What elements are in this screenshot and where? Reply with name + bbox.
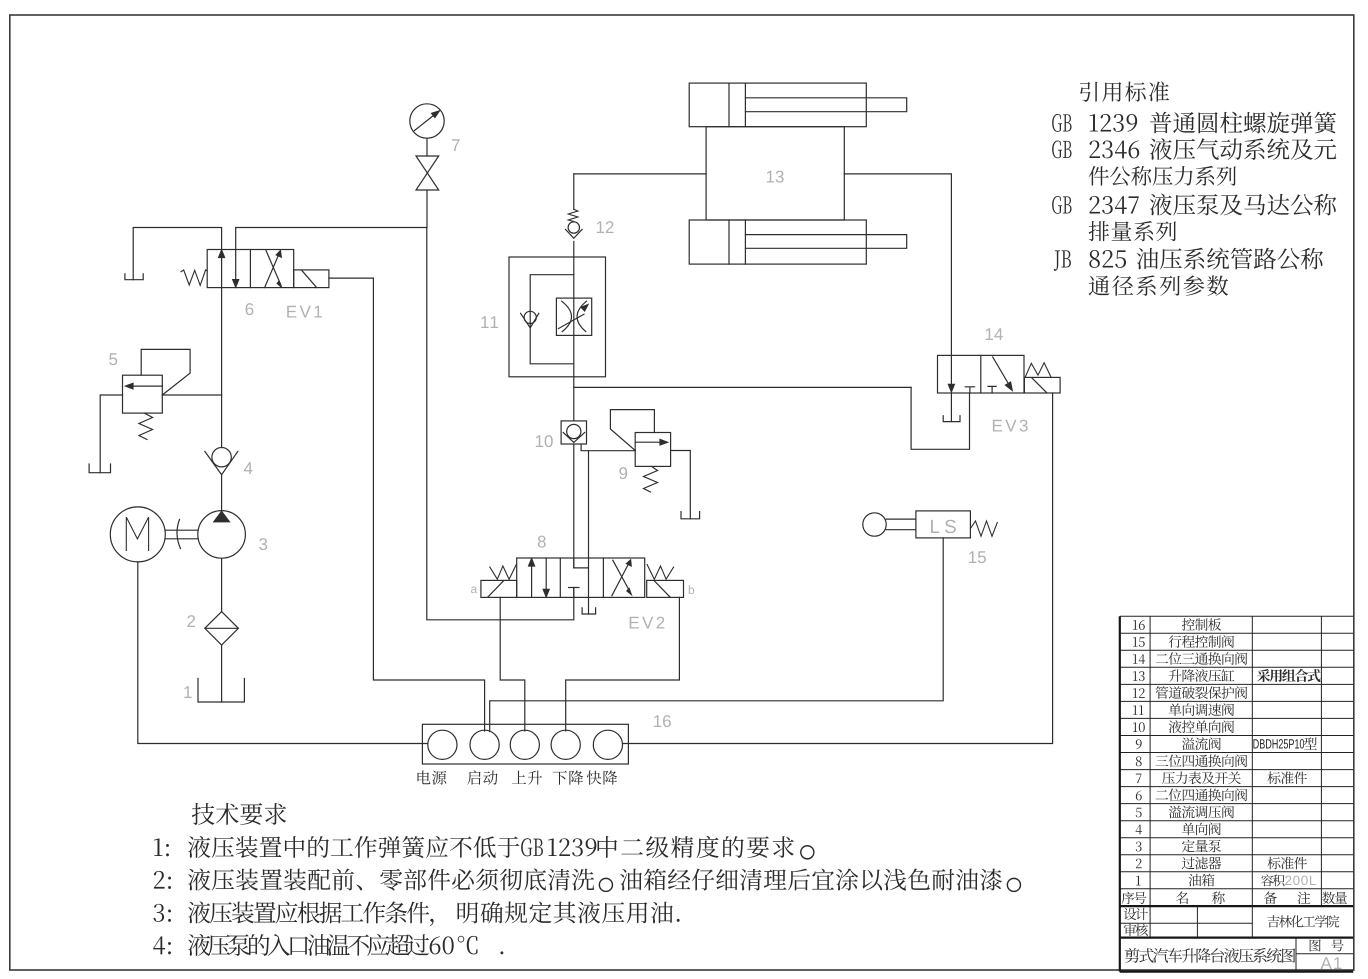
wire cylinder left port: [574, 173, 706, 175]
title block: [1124, 908, 1148, 920]
label 2: [187, 615, 195, 627]
label 10: [536, 435, 553, 447]
EV1 top right line to gauge line: [236, 228, 427, 250]
cylinder 13 center block: [706, 127, 844, 220]
gauge shutoff valve: [426, 138, 428, 156]
wire limit valve 15 to board (启动): [490, 538, 944, 732]
board label 快降: [587, 770, 617, 784]
relief valve 5 arrow: [130, 385, 162, 387]
label 8: [538, 536, 546, 548]
EV2 left spring: [490, 565, 517, 580]
relief valve 9 spring: [644, 466, 658, 492]
EV2 drain bracket below middle: [588, 597, 590, 614]
pressure line to EV2: [427, 228, 574, 620]
limit valve 15 plunger: [886, 519, 916, 530]
label EV3: [993, 420, 1028, 432]
shaft rotation arc: [177, 520, 181, 549]
board label 启动: [467, 770, 497, 784]
label 16: [654, 715, 671, 727]
pilot check valve 10: [561, 421, 586, 444]
main line through valve 11: [573, 242, 575, 421]
table row 10: [1133, 722, 1145, 732]
wire main line to EV3: [574, 386, 911, 388]
table row 14: [1133, 654, 1145, 664]
valve 11 throttle: [556, 298, 591, 335]
wire cylinder right port to EV3: [844, 174, 951, 356]
limit valve 15 spring: [970, 521, 997, 536]
table row 7: [1136, 774, 1142, 783]
control board 16: [422, 724, 628, 764]
EV1 top left drain line: [133, 228, 221, 280]
EV1 spring: [181, 270, 207, 286]
board button 下降: [551, 730, 580, 759]
pressure line gauge down: [426, 190, 428, 228]
wire branch down through EV2 to drain: [588, 451, 590, 598]
wire motor to control board: [138, 562, 428, 744]
board label 上升: [512, 771, 542, 785]
label 15: [969, 551, 986, 563]
table row 13: [1133, 671, 1145, 681]
label EV1: [287, 306, 322, 318]
drawing title: [1125, 948, 1295, 963]
wire EV1 to check valve: [221, 288, 223, 448]
tank 1: [198, 679, 244, 703]
label LS: [931, 520, 956, 533]
board button 电源: [428, 730, 457, 759]
wire 10 branch to valve 9: [581, 444, 635, 451]
board label 电源: [417, 770, 446, 784]
pump 3: [198, 511, 246, 559]
relief valve 9 body: [635, 433, 670, 467]
rupture protection valve 12 spring: [568, 209, 578, 221]
table row 12: [1133, 688, 1145, 698]
EV2 left position arrows: [531, 562, 533, 598]
label b: [689, 585, 694, 594]
pressure gauge 7: [410, 104, 444, 138]
label 9: [619, 467, 627, 479]
speed control valve 11 enclosure: [509, 257, 606, 377]
parts table grid: [1120, 616, 1353, 971]
label 200L: [1285, 876, 1316, 886]
wire EV1 solenoid down to control board: [329, 278, 485, 731]
relief valve 9 arrow: [635, 441, 663, 443]
label 11: [481, 316, 498, 328]
relief valve 5 body: [123, 375, 163, 413]
table row 6: [1136, 790, 1142, 800]
board label 下降: [553, 770, 583, 784]
EV3 right position blocked port: [988, 386, 996, 393]
EV3 right position diagonal arrow: [993, 357, 1010, 386]
motor M: [110, 507, 165, 562]
limit valve 15 roller: [863, 513, 886, 536]
label 13: [767, 171, 784, 183]
cylinder 13 bottom rod: [745, 235, 906, 249]
valve 8 EV2 body: [517, 558, 645, 597]
EV3 drain tank symbol: [943, 416, 960, 422]
standards heading: [1080, 81, 1169, 101]
tech requirements heading: [192, 803, 286, 825]
table row 5: [1136, 808, 1142, 818]
label 12: [597, 221, 614, 233]
board button 上升: [510, 730, 539, 759]
cylinder 13 top barrel: [689, 83, 866, 127]
label 7: [452, 139, 460, 151]
EV2 middle position porting: [574, 558, 589, 568]
check valve 4: [212, 448, 231, 467]
EV2 center port stem: [573, 588, 575, 598]
valve 11 bypass check valve: [524, 311, 536, 323]
label a: [471, 587, 477, 594]
motor shaft: [165, 530, 198, 539]
table row 15: [1133, 637, 1145, 647]
label 14: [986, 328, 1003, 340]
wire filter to tank: [221, 645, 223, 702]
wire EV2 left port to board (上升): [500, 597, 525, 731]
table thick borders: [1120, 616, 1353, 971]
label 3: [259, 538, 267, 550]
tank symbol below valve 9: [681, 512, 700, 519]
relief valve 9 drain: [671, 451, 691, 519]
EV3 drain below left square: [950, 393, 952, 422]
limit valve 15 body: [916, 511, 971, 538]
EV2 right spring: [647, 565, 674, 580]
filter 2: [205, 612, 239, 645]
wire cylinder line down to valve 12: [573, 174, 575, 209]
board button 快降: [593, 730, 622, 759]
board button 启动: [470, 730, 499, 759]
label 6: [246, 303, 254, 315]
table row 8: [1136, 756, 1142, 766]
valve 6 EV1 body: [207, 250, 294, 288]
EV3 left position blocked port: [965, 387, 974, 393]
label EV2: [630, 617, 665, 629]
table row 2: [1136, 859, 1142, 869]
relief valve 9 pilot line: [610, 410, 654, 451]
wire check valve to pump: [221, 475, 223, 511]
EV1 crossed position: [265, 251, 281, 288]
table remark DBDH25P10: [1253, 739, 1304, 749]
valve 11 bypass loop: [530, 275, 574, 364]
relief valve 5 pilot line: [141, 349, 190, 395]
table row 3: [1136, 842, 1142, 852]
table header: [1122, 892, 1147, 904]
wire EV3 bottom port jog: [911, 387, 969, 449]
label A1: [1321, 957, 1342, 969]
table row 11: [1133, 705, 1144, 715]
EV3 solenoid: [1024, 377, 1060, 393]
label 5: [109, 353, 117, 365]
EV1 solenoid: [294, 270, 329, 288]
table row 1: [1136, 876, 1141, 886]
label 1: [184, 686, 191, 698]
EV3 left position flow arrow: [950, 355, 952, 386]
table row 16: [1133, 620, 1145, 630]
wire EV2 right port to board (下降): [566, 597, 680, 731]
EV3 spring: [1025, 363, 1051, 377]
wire EV3 solenoid to control board: [623, 393, 1053, 744]
cylinder 13 top rod: [745, 98, 906, 112]
wire valve 5 drain: [100, 395, 122, 473]
EV2 right solenoid: [647, 580, 684, 597]
valve 14 EV3 body: [938, 355, 1025, 393]
relief valve 5 spring: [139, 413, 153, 439]
wire pump to filter: [221, 558, 223, 611]
table row 4: [1136, 825, 1143, 835]
rupture protection valve 12 check: [568, 222, 579, 233]
EV1 drain tank symbol: [125, 274, 143, 280]
EV1 left position arrows: [221, 253, 223, 288]
wire valve 5 to pump line: [162, 394, 221, 396]
cylinder 13 bottom barrel: [689, 220, 866, 264]
EV2 crossed position: [612, 560, 630, 596]
table row 9: [1136, 739, 1142, 749]
tank symbol below valve 5: [89, 464, 110, 473]
wire 10 to EV2: [573, 444, 575, 568]
label 4: [244, 462, 253, 474]
EV2 left solenoid: [481, 580, 517, 597]
